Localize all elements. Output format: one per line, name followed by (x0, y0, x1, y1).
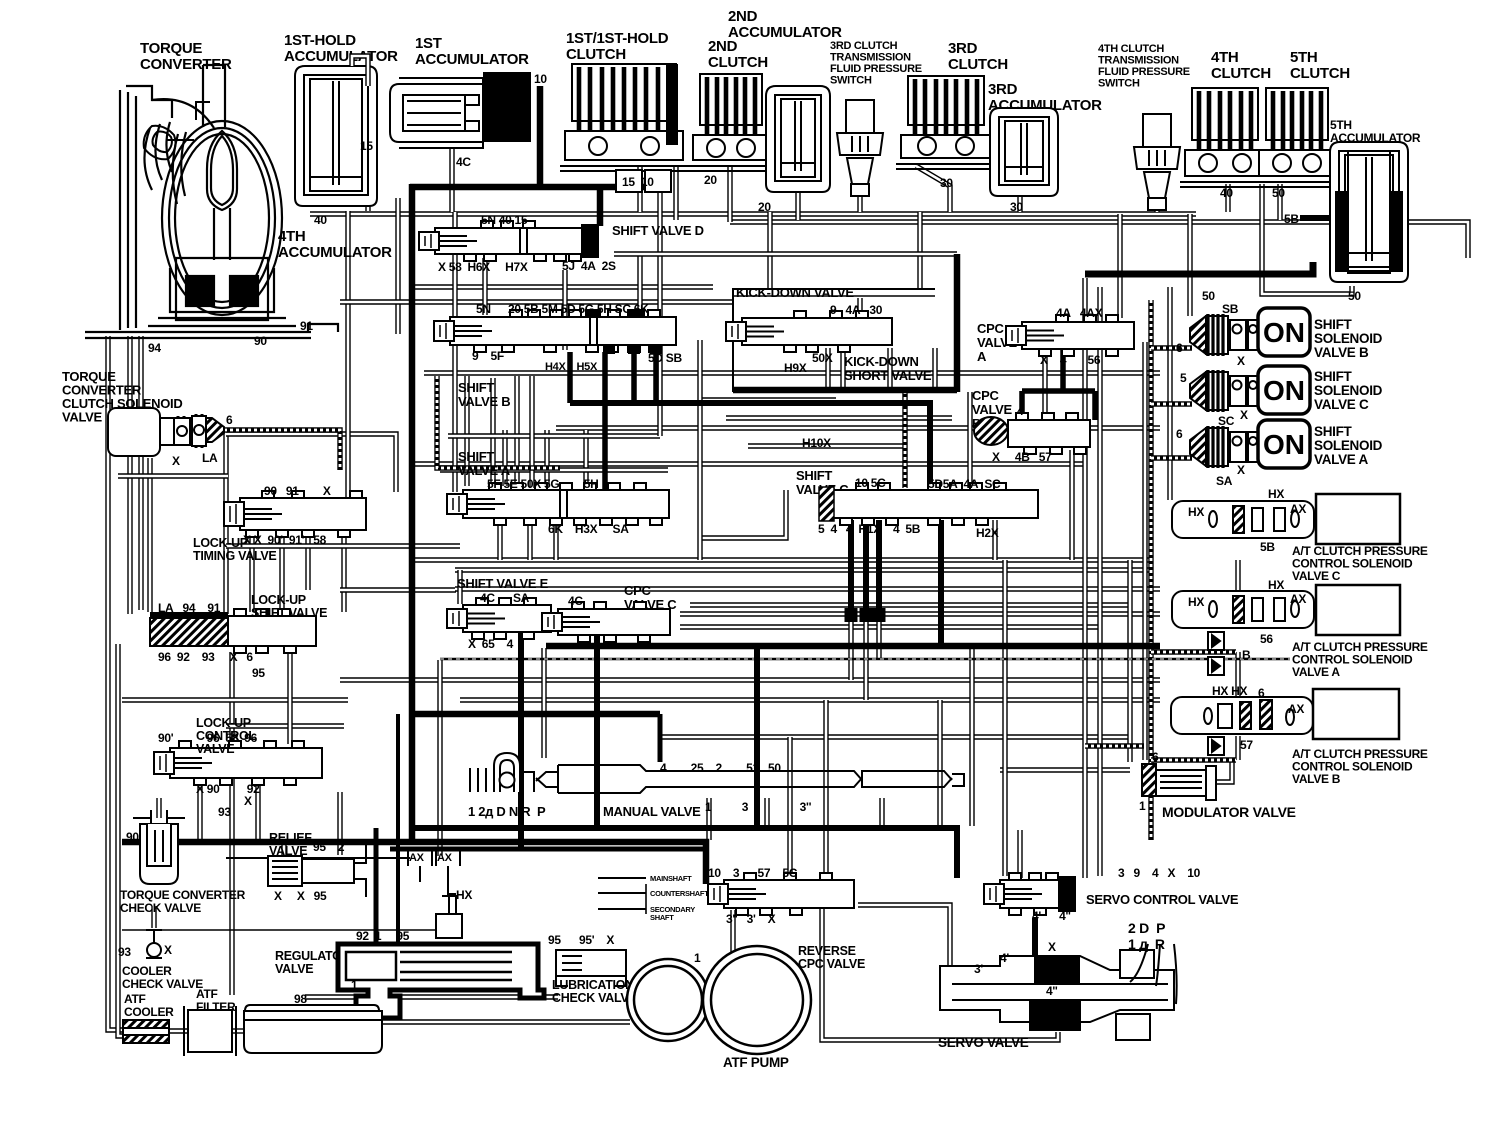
svg-text:VALVE A: VALVE A (1292, 665, 1340, 679)
ports 4 25 2 51 50 mv (660, 761, 781, 775)
wire v1145 (1142, 342, 1147, 760)
svg-text:93: 93 (118, 945, 131, 959)
svg-text:MODULATOR VALVE: MODULATOR VALVE (1162, 804, 1296, 820)
wire thick h842 (122, 842, 706, 884)
svg-text:93: 93 (218, 805, 231, 819)
label 56 (1260, 632, 1273, 646)
svg-text:91: 91 (300, 319, 313, 333)
svg-text:6: 6 (1152, 750, 1159, 764)
svg-text:4TH CLUTCH: 4TH CLUTCH (1098, 43, 1164, 55)
ports X 58 H6X (438, 260, 528, 274)
wire thick vC drops b (863, 520, 869, 614)
svg-text:4' 4'': 4' 4'' (1032, 909, 1071, 923)
svg-text:X: X (1240, 408, 1248, 422)
wire v890 kd (887, 348, 892, 388)
wire h476 left (118, 473, 228, 478)
1st-hold accumulator stem (352, 56, 368, 86)
wire v1130 (1127, 560, 1132, 762)
wire h546 (226, 543, 460, 548)
torque converter check valve (133, 810, 185, 884)
5th accumulator (1330, 142, 1408, 282)
CPC valve B ball (974, 417, 1008, 445)
wire h464 (412, 461, 1085, 466)
wire v467 (464, 376, 469, 486)
manual valve body (536, 765, 964, 793)
svg-text:X 4B 57: X 4B 57 (992, 450, 1052, 464)
label 4th clutch pressure switch (1098, 43, 1190, 90)
ports 4C SA (480, 591, 530, 605)
wire v1238 b (1235, 736, 1240, 760)
svg-text:2ND: 2ND (728, 8, 758, 25)
CPC valve A (1006, 315, 1134, 356)
wire 20 acc2 (795, 192, 800, 220)
check ball port 1 (1208, 632, 1224, 650)
CPC valve B (1008, 413, 1090, 454)
svg-text:10: 10 (534, 72, 547, 86)
svg-text:AX: AX (437, 852, 453, 864)
ports X 90 92 (196, 782, 260, 796)
regulator valve (338, 944, 544, 1018)
svg-text:AX: AX (409, 852, 425, 864)
wire thick h849 (390, 847, 703, 852)
label X tcc (172, 454, 180, 468)
wire thick h403 (570, 400, 933, 406)
label kick-down short valve (844, 354, 932, 383)
label regulator valve (275, 949, 351, 976)
wire lockup control drop1 (197, 778, 202, 841)
label 5th clutch (1290, 49, 1350, 82)
wire relief drop1 (281, 841, 286, 855)
svg-text:3'': 3'' (1036, 1016, 1048, 1030)
svg-text:LUBRICATION: LUBRICATION (552, 978, 634, 992)
svg-text:90 91 X: 90 91 X (264, 484, 331, 498)
ports 4p scv (1032, 909, 1071, 923)
svg-text:ACCUMULATOR: ACCUMULATOR (728, 24, 842, 41)
wire thick 50 5thacc (1085, 262, 1313, 274)
svg-text:10 5C: 10 5C (855, 476, 886, 490)
svg-text:2ND: 2ND (708, 38, 738, 55)
label 6 solA (1176, 427, 1183, 441)
label SA sol (1216, 474, 1233, 488)
wire hatch v437 (437, 376, 560, 468)
lock-up timing valve (224, 491, 366, 537)
label 10 a (534, 72, 547, 86)
relief valve (268, 845, 366, 897)
wire left main x108 (108, 336, 125, 1030)
black cap b (860, 608, 873, 622)
wire thick v930 to C (927, 403, 933, 490)
svg-text:56: 56 (1260, 632, 1273, 646)
svg-text:X: X (1237, 354, 1245, 368)
wire x1085 down (1082, 648, 1087, 878)
wire relief drop2 (337, 792, 342, 855)
label 30 b (1010, 200, 1023, 214)
ports H4X H5X (545, 361, 598, 373)
wire 20 run (730, 222, 1468, 258)
label HX HX b (1212, 684, 1247, 698)
wire h905 servo feed (858, 905, 950, 966)
label shift solenoid valve B (1314, 317, 1383, 360)
svg-text:9 5F: 9 5F (472, 349, 504, 363)
svg-text:20: 20 (704, 173, 717, 187)
svg-text:ACCUMULATOR: ACCUMULATOR (278, 244, 392, 261)
wire 30 clutch3 (916, 166, 950, 212)
svg-text:VALVE C: VALVE C (1314, 397, 1369, 412)
ports 5N b (476, 302, 491, 316)
svg-text:2 D P: 2 D P (1128, 920, 1165, 936)
svg-text:5F 5E 50X 5G 5H: 5F 5E 50X 5G 5H (487, 477, 598, 491)
wire h418 (726, 415, 952, 420)
ports 5J 4A 2S (562, 259, 616, 273)
ports XX 90 91 58 (243, 533, 327, 547)
wire thick h186 (410, 184, 660, 191)
svg-text:VALVE A: VALVE A (1314, 452, 1368, 467)
label lock-up control valve (196, 716, 256, 756)
svg-text:1: 1 (351, 978, 358, 992)
ports 96 92 93 X 6 (158, 650, 253, 664)
svg-text:50: 50 (1272, 186, 1285, 200)
svg-text:6K H3X SA: 6K H3X SA (548, 522, 629, 536)
label lock-up shift valve (251, 593, 327, 620)
label 15 a (360, 139, 373, 153)
wire LA hatched (224, 430, 340, 470)
label torque converter (140, 40, 232, 73)
wire hatch v905 cpcb (902, 391, 907, 488)
2nd clutch (688, 74, 774, 171)
svg-text:3': 3' (974, 962, 983, 976)
wire thick 10 drop (537, 86, 544, 187)
wire v1005 (1002, 560, 1007, 876)
wire h287 (412, 284, 713, 289)
svg-text:6: 6 (1258, 686, 1265, 700)
svg-text:5N 40 15: 5N 40 15 (481, 213, 528, 227)
ports LA 94 91 (158, 601, 221, 615)
wire timing drop1 (249, 532, 254, 612)
wire v1190 (1187, 214, 1192, 316)
label 1 pump (694, 951, 701, 965)
svg-text:COUNTERSHAFT: COUNTERSHAFT (650, 889, 709, 898)
svg-text:SHIFT: SHIFT (1314, 369, 1353, 384)
ports 3 9 4 X 10 scv (1118, 866, 1201, 880)
ports X 93b (244, 794, 252, 808)
4th clutch (1180, 88, 1270, 187)
wire thick v1063 (1060, 344, 1066, 391)
ports 1 3 3pp mv (705, 800, 812, 814)
wire box lockup (226, 434, 396, 492)
cooler check valve symbol (146, 930, 162, 958)
wire v843 kd (840, 348, 845, 388)
ports H10X (802, 436, 831, 450)
svg-text:X: X (164, 943, 172, 957)
svg-text:3RD CLUTCH: 3RD CLUTCH (830, 40, 898, 52)
label 5 solC (1180, 371, 1187, 385)
wire v493 (490, 378, 495, 486)
svg-text:LA 94 91: LA 94 91 (158, 601, 221, 615)
label 4C a (456, 155, 471, 169)
wire 10 clutch1 (673, 166, 678, 220)
svg-text:SOLENOID: SOLENOID (1314, 331, 1383, 346)
ports 90 91 X (264, 484, 331, 498)
wire v700 (697, 340, 702, 560)
svg-text:57: 57 (1240, 738, 1253, 752)
label SB sol (1222, 302, 1239, 316)
svg-text:CPC: CPC (972, 388, 999, 403)
svg-text:4A 4AX: 4A 4AX (1056, 306, 1103, 320)
svg-text:COOLER: COOLER (122, 964, 172, 978)
label 1st/1st-hold clutch (566, 30, 669, 63)
label 1st accumulator (415, 35, 529, 68)
wire v1100 (1097, 287, 1102, 876)
svg-text:5: 5 (1180, 371, 1187, 385)
ports 4A 4AX (1056, 306, 1103, 320)
wire h605 (690, 602, 1130, 607)
wire x398 tc (395, 198, 400, 334)
svg-text:ATF: ATF (196, 987, 218, 1001)
wire v851 cont (848, 622, 853, 680)
ports 20 5B 5M 5D 5G 5H SC 6K (508, 302, 649, 316)
5th clutch (1254, 88, 1340, 187)
label shift valve C (796, 468, 849, 497)
wire filter-pan (232, 1028, 247, 1033)
wire v440 relief (437, 660, 442, 856)
svg-text:1: 1 (694, 951, 701, 965)
wire servo return box (822, 908, 1058, 1040)
label shift valve A (458, 449, 511, 478)
label 1 mod (1139, 799, 1146, 813)
wire h700 right (460, 697, 1160, 702)
svg-text:95 2: 95 2 (313, 840, 345, 854)
svg-text:TIMING VALVE: TIMING VALVE (193, 549, 276, 563)
label atf cooler (124, 992, 174, 1019)
svg-text:X 58 H6X H7X: X 58 H6X H7X (438, 260, 528, 274)
svg-text:1 3 3: 1 3 3'' (705, 800, 812, 814)
svg-text:VALVE: VALVE (275, 962, 313, 976)
ports 95 2 rv (313, 840, 345, 854)
ports 95 95 X lub (548, 933, 614, 947)
svg-text:3RD: 3RD (988, 81, 1018, 98)
wire thick vE drop (518, 632, 524, 848)
label atf filter (196, 987, 236, 1014)
svg-text:CLUTCH: CLUTCH (566, 46, 626, 63)
ports 4p servo (1000, 951, 1009, 965)
svg-text:SHIFT: SHIFT (796, 468, 832, 483)
wire thick v757 (754, 648, 760, 826)
wire 50 clutch5 (1262, 184, 1352, 294)
label kick-down valve (736, 285, 854, 300)
wire h627 (680, 624, 1100, 629)
wire v1238 a (1235, 652, 1240, 696)
wire timing drop4 (341, 532, 346, 612)
label shift valve E (457, 576, 549, 591)
label CPC valve A (977, 321, 1018, 364)
label shift solenoid valve C (1314, 369, 1383, 412)
AX port symbol 1 (408, 850, 432, 882)
ports 3p servo (974, 962, 983, 976)
svg-text:3'' 3' X: 3'' 3' X (726, 912, 776, 926)
wire thick v570 (567, 352, 573, 403)
label shift valve D (612, 223, 704, 238)
svg-text:VALVE C: VALVE C (1292, 569, 1341, 583)
svg-text:B: B (1242, 648, 1251, 662)
wire manual drop 3 (764, 798, 769, 826)
svg-text:1ST/1ST-HOLD: 1ST/1ST-HOLD (566, 30, 669, 47)
svg-text:FLUID PRESSURE: FLUID PRESSURE (1098, 66, 1190, 78)
svg-text:CLUTCH: CLUTCH (708, 54, 768, 71)
label 5th accumulator (1330, 118, 1421, 145)
wire h428 long (556, 425, 1160, 430)
ON box A (1258, 420, 1310, 468)
svg-text:92 1 95: 92 1 95 (356, 929, 410, 943)
wire mod right (1216, 760, 1232, 782)
wire v940 br (937, 700, 942, 828)
check ball port 2 (1208, 657, 1224, 675)
wire 15 clutch1 (637, 166, 642, 212)
svg-text:X: X (1048, 940, 1056, 954)
svg-text:COOLER: COOLER (124, 1005, 174, 1019)
wire pan out (381, 1019, 630, 1024)
ports X X 95 rv (274, 889, 327, 903)
wire vB drop x660 (657, 404, 662, 436)
wire x1020 servo (1017, 830, 1022, 878)
label 1 D R (1128, 936, 1165, 952)
svg-text:HX: HX (1188, 505, 1204, 519)
wire v547 (544, 430, 549, 486)
svg-text:ATF: ATF (124, 992, 146, 1006)
svg-text:RELIEF: RELIEF (269, 831, 312, 845)
wire v485 5N (482, 258, 487, 315)
label B a (1242, 648, 1251, 662)
wire 4C (449, 148, 454, 212)
svg-text:4C: 4C (456, 155, 471, 169)
wire h302 (340, 299, 733, 304)
svg-text:ON: ON (1263, 429, 1305, 460)
wire 30 acc3 (1017, 196, 1022, 212)
label X ccv (164, 943, 172, 957)
wire 40 clutch4 (1225, 184, 1230, 212)
wire h725 lockup-control top (226, 723, 344, 728)
svg-text:5D SB: 5D SB (648, 351, 682, 365)
svg-text:AX: AX (1290, 502, 1306, 516)
ports 6K H3X SA (548, 522, 629, 536)
wire h589 (455, 586, 1160, 591)
svg-text:TRANSMISSION: TRANSMISSION (1098, 55, 1179, 67)
wire h400 (700, 397, 836, 402)
wire v920 (917, 212, 922, 289)
label HX rv (456, 888, 472, 902)
wire h614 (680, 611, 1160, 616)
wire h680 (340, 677, 1160, 682)
svg-text:HX: HX (1268, 487, 1284, 501)
svg-text:4TH: 4TH (1211, 49, 1238, 66)
label 5B c (1260, 540, 1275, 554)
svg-text:4C: 4C (568, 594, 583, 608)
wire 98 line (305, 994, 558, 999)
wire h446 H10X (748, 443, 904, 448)
label AX a (1290, 592, 1306, 606)
shift valve E (447, 598, 551, 639)
svg-text:AX: AX (1288, 702, 1304, 716)
svg-text:9 4A 30: 9 4A 30 (830, 303, 883, 317)
wire thick v376 reg (374, 828, 379, 942)
ports 4 cpcb (1017, 404, 1024, 418)
svg-text:SA: SA (1216, 474, 1233, 488)
label HX c1 (1188, 505, 1204, 519)
svg-text:6: 6 (226, 413, 233, 427)
label LA tcc (202, 451, 218, 465)
svg-text:50: 50 (1348, 289, 1361, 303)
label 4th clutch (1211, 49, 1271, 82)
4th clutch pressure switch symbol (1134, 114, 1180, 210)
label 15 10 ports (622, 175, 654, 189)
svg-text:3 9 4 X 10: 3 9 4 X 10 (1118, 866, 1201, 880)
wire v790 57 (787, 737, 792, 878)
svg-text:CPC: CPC (977, 321, 1004, 336)
ports 9 4A 30 kd (830, 303, 883, 317)
wire h930 (122, 929, 440, 931)
wire 3rd switch stem (857, 192, 862, 212)
svg-text:SHIFT: SHIFT (458, 380, 494, 395)
shift valve B black ports (585, 309, 662, 354)
label relief valve (269, 831, 312, 858)
svg-text:HX HX: HX HX (1212, 684, 1247, 698)
port box 10 (645, 170, 671, 192)
svg-text:50: 50 (1202, 289, 1215, 303)
svg-text:40: 40 (1220, 186, 1233, 200)
wire v970 (967, 392, 972, 488)
label SC sol (1218, 414, 1235, 428)
lock-up control valve (154, 741, 322, 785)
kick-down valve (726, 311, 892, 352)
wire v460 E (457, 570, 462, 604)
svg-text:VALVE B: VALVE B (1314, 345, 1369, 360)
wire thick vC drops d (938, 520, 944, 648)
wire v770 (767, 212, 772, 289)
wire thick v605 (602, 352, 608, 490)
svg-text:6: 6 (1176, 341, 1183, 355)
svg-text:HX: HX (456, 888, 472, 902)
kick-down box top2 (733, 295, 935, 297)
shift solenoid valve C symbol (1190, 370, 1259, 412)
ports X 65 4 E (468, 637, 514, 651)
wire v866 cont (863, 622, 868, 700)
label CPC valve B (972, 388, 1013, 431)
label 91 (300, 319, 313, 333)
svg-text:TORQUE: TORQUE (140, 40, 202, 57)
label 98 pan (294, 992, 307, 1006)
wire v640b (637, 254, 642, 315)
1st accumulator (390, 78, 483, 148)
svg-text:ATF PUMP: ATF PUMP (723, 1055, 789, 1070)
svg-text:SHIFT VALVE: SHIFT VALVE (251, 606, 327, 620)
shift solenoid valve A symbol (1190, 426, 1259, 468)
lock-up shift valve (228, 609, 316, 653)
wire tc down x140 (138, 336, 143, 610)
label 5B (1284, 212, 1299, 226)
svg-text:X: X (244, 794, 252, 808)
torque converter (85, 65, 338, 338)
label atf pump (723, 1055, 789, 1070)
svg-text:90: 90 (254, 334, 267, 348)
svg-text:20: 20 (758, 200, 771, 214)
wire v565 (562, 270, 567, 350)
3rd clutch pressure switch symbol (837, 100, 883, 196)
svg-text:H9X: H9X (784, 361, 807, 375)
label X solB (1237, 354, 1245, 368)
label 93 tccv (118, 945, 131, 959)
label shift valve B (458, 380, 510, 409)
label 50 b (1348, 289, 1361, 303)
wire tc check stem (156, 798, 161, 818)
